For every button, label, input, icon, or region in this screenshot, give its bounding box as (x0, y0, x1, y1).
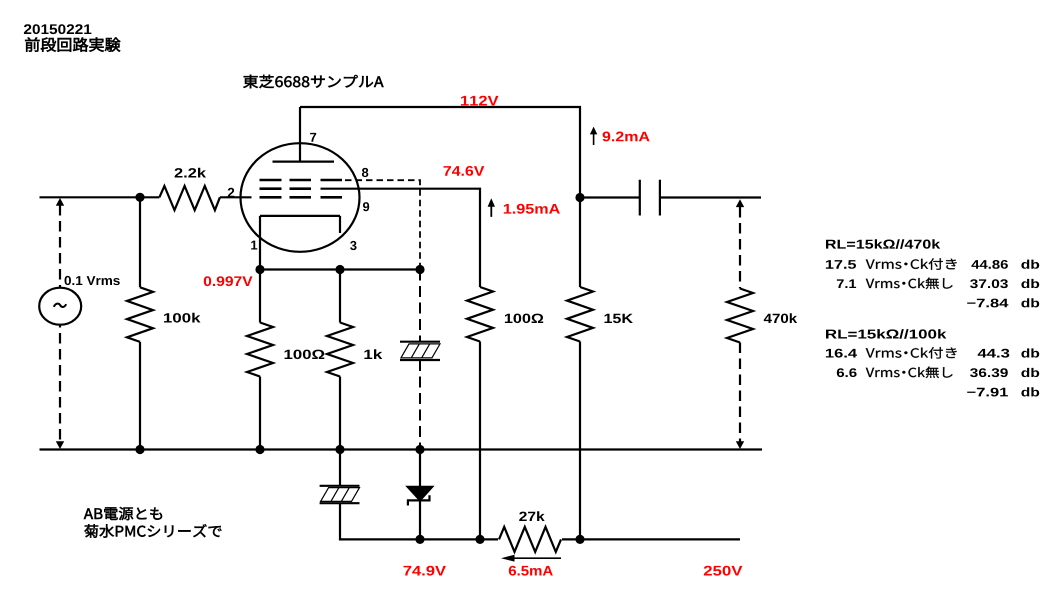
wire: top 112V rail from plate lead to plate-node drop (300, 107, 580, 198)
wire: 1k to ground rail (339, 377, 341, 450)
wire: plate node down to 15K (579, 198, 581, 288)
resistor 100k (grid leak) (127, 287, 153, 342)
wire: grid resistor to tube pin 2 (220, 196, 252, 198)
wire: ground rail (40, 448, 763, 450)
pin 3 (350, 241, 357, 250)
label 15K (605, 314, 633, 323)
voltage 250V (704, 566, 743, 576)
wire: plate lead inside tube (299, 107, 301, 162)
note 菊水PMCシリーズで (84, 524, 221, 538)
wire: 100k to ground rail (139, 342, 141, 450)
wire: lower hatched diode to 74.9V line corner (340, 503, 498, 539)
hatched diode D2 (lower) (320, 486, 360, 503)
title 前段回路実験 (25, 37, 120, 51)
dashed measure line output 470k top (739, 207, 741, 289)
resistor 100ohm Rk (247, 323, 273, 377)
wire: Rk to ground rail (259, 377, 261, 450)
resistor 27k (dropper) (499, 527, 561, 552)
junction ground 420 (415, 445, 424, 454)
voltage 0.997V (204, 276, 253, 286)
junction input node / 100k (135, 193, 144, 202)
pin 1 (251, 241, 257, 250)
table -7.91 (967, 388, 1008, 397)
voltage 74.9V (404, 566, 446, 576)
tube grid row 2 (dashes) (260, 187, 312, 190)
table Vrms Ck付き 1 (866, 258, 957, 269)
wire: cathode junction row (260, 268, 420, 270)
wire: ground rail down to zener (419, 450, 421, 487)
voltage 74.6V (444, 166, 485, 176)
current 6.5mA (509, 566, 553, 576)
tube envelope circle U1 6688 (241, 143, 360, 252)
current arrow 9.2mA (590, 127, 597, 145)
label 100ohm Rk (285, 350, 325, 360)
current 9.2mA (603, 132, 650, 142)
label 100ohm out (505, 314, 543, 324)
wire: cathode node down to 100ohm Rk (259, 270, 261, 323)
label 100k (164, 313, 201, 323)
table Vrms Ck付き 2 (866, 347, 957, 358)
junction cathode 1k (335, 265, 344, 274)
hatched diode D1 (upper) (400, 342, 440, 360)
table 37.03 (970, 279, 1008, 288)
tube grid row 1 (dashes) (260, 179, 343, 182)
wire: cathode pin 1 leg (259, 216, 261, 270)
pin 8 (362, 168, 368, 177)
resistor 15K (plate load) (567, 287, 593, 342)
dashed wire: grid row1 to node over 420 (345, 180, 420, 269)
wire: zener to 74.9V line (419, 500, 421, 539)
label 東芝6688サンプルA (243, 75, 383, 88)
table db5 (1021, 368, 1039, 377)
title date (24, 24, 92, 34)
AC source tilde (54, 304, 66, 307)
table 7.1 (837, 279, 856, 288)
note AB電源とも (84, 507, 162, 520)
junction cathode node 420 (415, 265, 424, 274)
junction cathode pin1 (255, 265, 264, 274)
wire: input from left edge to grid resistor (40, 196, 160, 198)
table Vrms Ck無し 1 (866, 278, 953, 290)
current 1.95mA (504, 204, 560, 214)
current arrow 1.95mA (488, 198, 495, 217)
junction ground 340 (335, 445, 344, 454)
table -7.84 (967, 299, 1008, 308)
junction ground 100k (135, 445, 144, 454)
resistor 1k (327, 323, 353, 377)
table db1 (1021, 260, 1039, 269)
resistor 100ohm (output load) (467, 287, 493, 342)
label 27k (519, 511, 545, 521)
wire: cathode pin 3 stub (339, 216, 341, 233)
arrowhead input bottom (56, 441, 64, 449)
current arrow 6.5mA (left) (501, 555, 561, 562)
table db3 (1021, 298, 1039, 307)
wire: cap to output/load (660, 196, 761, 198)
table 44.86 (971, 260, 1008, 269)
table db2 (1021, 279, 1039, 288)
table Vrms Ck無し 2 (866, 367, 953, 379)
label 470k (764, 313, 797, 323)
arrowhead 470k bottom (736, 441, 744, 449)
junction plate node 15K-cap (575, 193, 584, 202)
wire: 15K down to 74.9V line (579, 342, 581, 540)
table 16.4 (826, 349, 857, 358)
tube grid row 3 (dashes) (260, 196, 343, 199)
table 44.3 (978, 349, 1010, 358)
wire: 27k to 250V end (562, 538, 740, 540)
wire: 100ohm bottom down to 74.9V node line (479, 342, 481, 540)
wire: cathode node down to 1k (339, 270, 341, 323)
junction ground Rk (255, 445, 264, 454)
table 6.6 (837, 368, 857, 377)
table 36.39 (970, 368, 1008, 377)
junction 74.9V node 100ohm (475, 535, 484, 544)
zener diode D3 (407, 487, 432, 506)
table RL=15k//470k (826, 239, 940, 249)
AC source circle (39, 288, 81, 325)
label 0.1Vrms (65, 276, 120, 285)
junction 74.9V node 15K (575, 535, 584, 544)
dashed measure line input (0.1Vrms) (59, 205, 61, 443)
pin 9 (363, 202, 369, 211)
pin 2 (228, 188, 235, 197)
resistor 2.2k (grid stopper) (159, 186, 220, 210)
arrowhead input top (56, 198, 64, 206)
table 17.5 (826, 260, 856, 269)
wire: input node down to 100k (139, 197, 141, 287)
capacitor C1 coupling (640, 180, 660, 216)
arrowhead 470k top (736, 199, 744, 207)
dashed measure line output 470k bottom (739, 343, 741, 444)
wire: plate node to coupling cap (580, 196, 640, 198)
voltage 112V (461, 96, 499, 106)
tube plate bar (273, 161, 335, 163)
dashed wire: node 420 down to upper hatched diode (419, 270, 421, 342)
pin 7 (310, 133, 316, 142)
wire: tube output pin 8/9 to 100ohm drop (321, 189, 481, 287)
table RL=15k//100k (826, 329, 946, 339)
table db4 (1021, 348, 1039, 357)
table db6 (1021, 387, 1039, 396)
label 2.2k (175, 168, 206, 178)
dashed wire: hatched diode to ground rail (419, 360, 421, 450)
tube cathode bar (260, 215, 340, 217)
wire: ground rail down to lower hatched diode (339, 450, 341, 486)
resistor 470k (load) (727, 289, 753, 343)
label 1k (364, 349, 382, 359)
junction 74.9V node zener (415, 535, 424, 544)
